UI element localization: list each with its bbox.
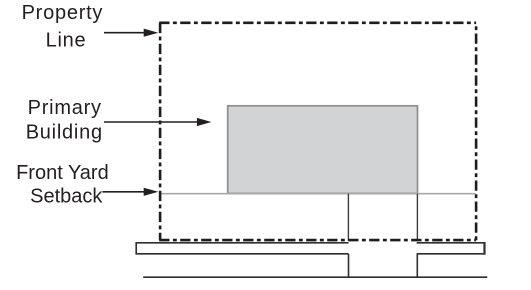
sidewalk left section (136, 243, 348, 254)
property line: right edge (dash-dot) (475, 23, 478, 240)
walkway right edge (setback to property line) (416, 194, 418, 241)
sidewalk right section (417, 243, 485, 254)
svg-text:Property: Property (22, 2, 104, 24)
svg-text:Setback: Setback (30, 185, 103, 207)
arrow to primary building (104, 121, 198, 123)
property line: top edge (dash-dot) (159, 21, 476, 24)
front yard setback line (gray) (161, 193, 476, 195)
walkway right edge (sidewalk to street) (416, 254, 418, 277)
arrow to setback line (103, 191, 147, 193)
primary building (gray rectangle) (228, 106, 418, 194)
street line (143, 276, 487, 278)
svg-text:Line: Line (46, 30, 87, 52)
walkway left edge (setback to property line) (347, 194, 349, 241)
walkway left edge (sidewalk to street) (348, 254, 350, 277)
svg-text:Primary: Primary (28, 97, 102, 119)
svg-text:Building: Building (26, 121, 103, 143)
arrow to property line (104, 32, 145, 34)
sidewalk right end edge (thicker) (483, 242, 485, 255)
property line: left edge (dash-dot) (159, 23, 162, 240)
svg-text:Front Yard: Front Yard (16, 162, 109, 184)
property line: bottom edge (dash-dot) (159, 239, 476, 242)
